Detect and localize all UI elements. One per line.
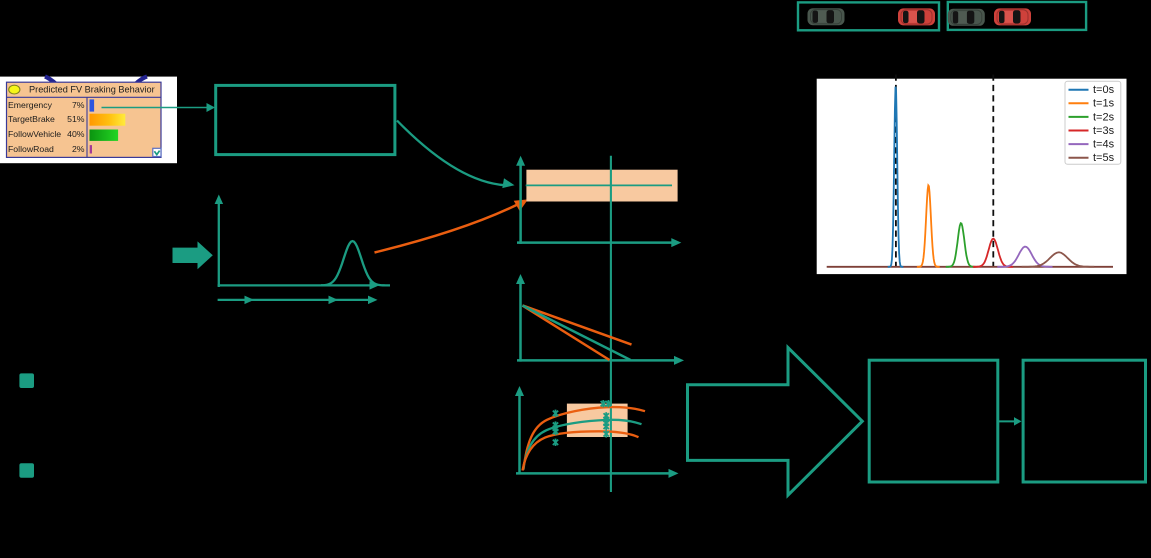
svg-text:t=4s: t=4s <box>1093 139 1115 151</box>
svg-text:2%: 2% <box>72 144 85 154</box>
svg-text:t=2s: t=2s <box>1093 111 1115 123</box>
svg-text:t=3s: t=3s <box>1093 125 1115 137</box>
svg-text:t=0s: t=0s <box>1093 84 1115 96</box>
svg-text:51%: 51% <box>67 114 85 124</box>
svg-text:t=5s: t=5s <box>1093 152 1115 164</box>
svg-text:Emergency: Emergency <box>8 100 53 110</box>
svg-text:40%: 40% <box>67 129 85 139</box>
svg-text:t=1s: t=1s <box>1093 98 1115 110</box>
svg-text:7%: 7% <box>72 100 85 110</box>
svg-text:FollowVehicle: FollowVehicle <box>8 129 61 139</box>
svg-text:Predicted FV Braking Behavior: Predicted FV Braking Behavior <box>29 85 155 95</box>
svg-text:FollowRoad: FollowRoad <box>8 144 54 154</box>
svg-text:TargetBrake: TargetBrake <box>8 114 55 124</box>
